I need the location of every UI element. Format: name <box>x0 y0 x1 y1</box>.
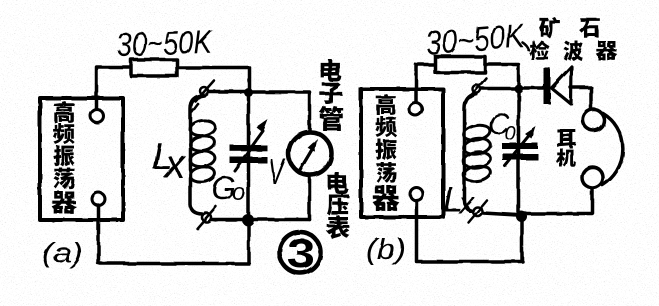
svg-text:30~50K: 30~50K <box>116 23 214 63</box>
svg-text:o: o <box>232 179 245 206</box>
svg-text:(a): (a) <box>42 237 83 268</box>
svg-text:x: x <box>457 187 475 220</box>
svg-text:x: x <box>163 143 187 187</box>
svg-text:0: 0 <box>505 123 516 145</box>
svg-text:3: 3 <box>287 229 315 277</box>
svg-text:V: V <box>268 151 286 192</box>
svg-text:(b): (b) <box>366 234 406 266</box>
